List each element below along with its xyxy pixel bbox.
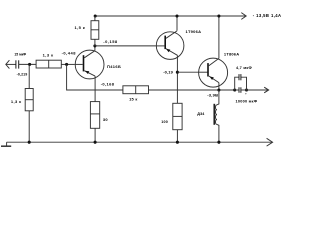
node ground dot R1 [28, 141, 31, 144]
svg-text:-0,219: -0,219 [17, 72, 28, 76]
svg-text:-0,158: -0,158 [103, 39, 118, 44]
svg-text:1,3 к: 1,3 к [43, 53, 54, 58]
svg-text:15 к: 15 к [129, 97, 138, 102]
svg-text:1,5 к: 1,5 к [75, 25, 86, 30]
wire: Q1 emitter down [94, 76, 96, 102]
svg-text:10000 мкФ: 10000 мкФ [236, 99, 258, 103]
resistor R2 1,3к series [36, 60, 61, 68]
wire: R2 to Q1 base [61, 63, 74, 65]
svg-text:-0,448: -0,448 [62, 50, 77, 55]
capacitor C2 4,7мкФ [239, 74, 241, 80]
node output-right dot [245, 88, 248, 91]
node ground dot R5 [176, 141, 179, 144]
transistor Q2 1Т906А [156, 31, 184, 60]
node Q2 collector dot [175, 14, 178, 17]
node R3 top dot on rail [94, 14, 97, 17]
resistor R3 1,5к [91, 21, 99, 40]
svg-text:30: 30 [103, 117, 109, 122]
input arrow [6, 60, 10, 68]
ground symbol [6, 142, 8, 145]
wire: input to C1 [6, 63, 16, 65]
svg-text:15 мкФ: 15 мкФ [14, 53, 26, 57]
svg-text:1Т906А: 1Т906А [186, 29, 202, 34]
svg-text:1,3 к: 1,3 к [11, 99, 22, 104]
node ground dot R4 [94, 141, 97, 144]
wire: base node down to feedback line [67, 64, 123, 90]
svg-text:-0,19: -0,19 [163, 70, 173, 75]
node Q1 base dot [65, 63, 68, 66]
wire: Q3 emitter to output node [218, 83, 220, 90]
transistor Q3 1Т806А [199, 58, 228, 87]
capacitor C1 15мкФ [16, 60, 19, 68]
svg-text:4,7 мкФ: 4,7 мкФ [236, 66, 253, 70]
resistor R4 30 [90, 102, 99, 129]
wire: R4 to ground [94, 128, 96, 142]
ground rail [7, 141, 272, 143]
wire: Q1 collector up [94, 46, 96, 51]
svg-text:П416Б: П416Б [107, 64, 121, 69]
svg-text:Д34: Д34 [197, 112, 205, 116]
node Q2 emitter dot [176, 71, 179, 74]
wire: rail to R3 [94, 16, 96, 21]
transistor Q1 П416Б [74, 50, 104, 79]
wire: input node down [28, 64, 30, 88]
resistor R6 15к feedback [123, 86, 149, 94]
node Q1 collector dot [93, 44, 96, 47]
node ground dot coil [217, 141, 220, 144]
wire: Q3 collector up to rail [218, 16, 220, 58]
wire: Q2 emitter down [176, 55, 178, 103]
wire: Q2 collector up to rail [176, 16, 178, 31]
supply arrow [241, 13, 246, 20]
wire: feedback line to output node [149, 89, 235, 91]
wire: top supply rail [96, 15, 246, 17]
svg-text:1Т806А: 1Т806А [224, 51, 239, 56]
node Q3 collector dot [217, 14, 220, 17]
svg-text:-3,9В: -3,9В [207, 93, 218, 98]
output arrow [264, 87, 268, 93]
capacitor C3 10000мкФ [239, 87, 241, 93]
ground-rail arrow [267, 138, 273, 146]
resistor R5 100 [173, 103, 182, 129]
node output-left dot [233, 88, 236, 91]
wire: bypass loop [235, 77, 239, 90]
node Q3 emitter dot [217, 88, 220, 91]
svg-text:- 13,5В 1,4А: - 13,5В 1,4А [253, 13, 282, 18]
wire: R1 to ground rail [28, 111, 30, 142]
inductor Д34 (speaker coil) [214, 90, 219, 142]
wire: C1 to input node [19, 63, 36, 65]
svg-text:+: + [245, 92, 247, 96]
wire: Q2 emitter to Q3 base [177, 71, 198, 73]
wire: cap stubs on output line [235, 89, 239, 91]
svg-text:100: 100 [161, 120, 168, 124]
resistor R1 1,3к vertical [25, 89, 33, 111]
wire: output line to arrow [247, 89, 268, 91]
wire: R5 to ground [176, 130, 178, 143]
svg-text:-0,168: -0,168 [101, 82, 115, 87]
node input dot [28, 63, 31, 66]
wire: R3 to collector node and Q2 base [94, 39, 96, 46]
